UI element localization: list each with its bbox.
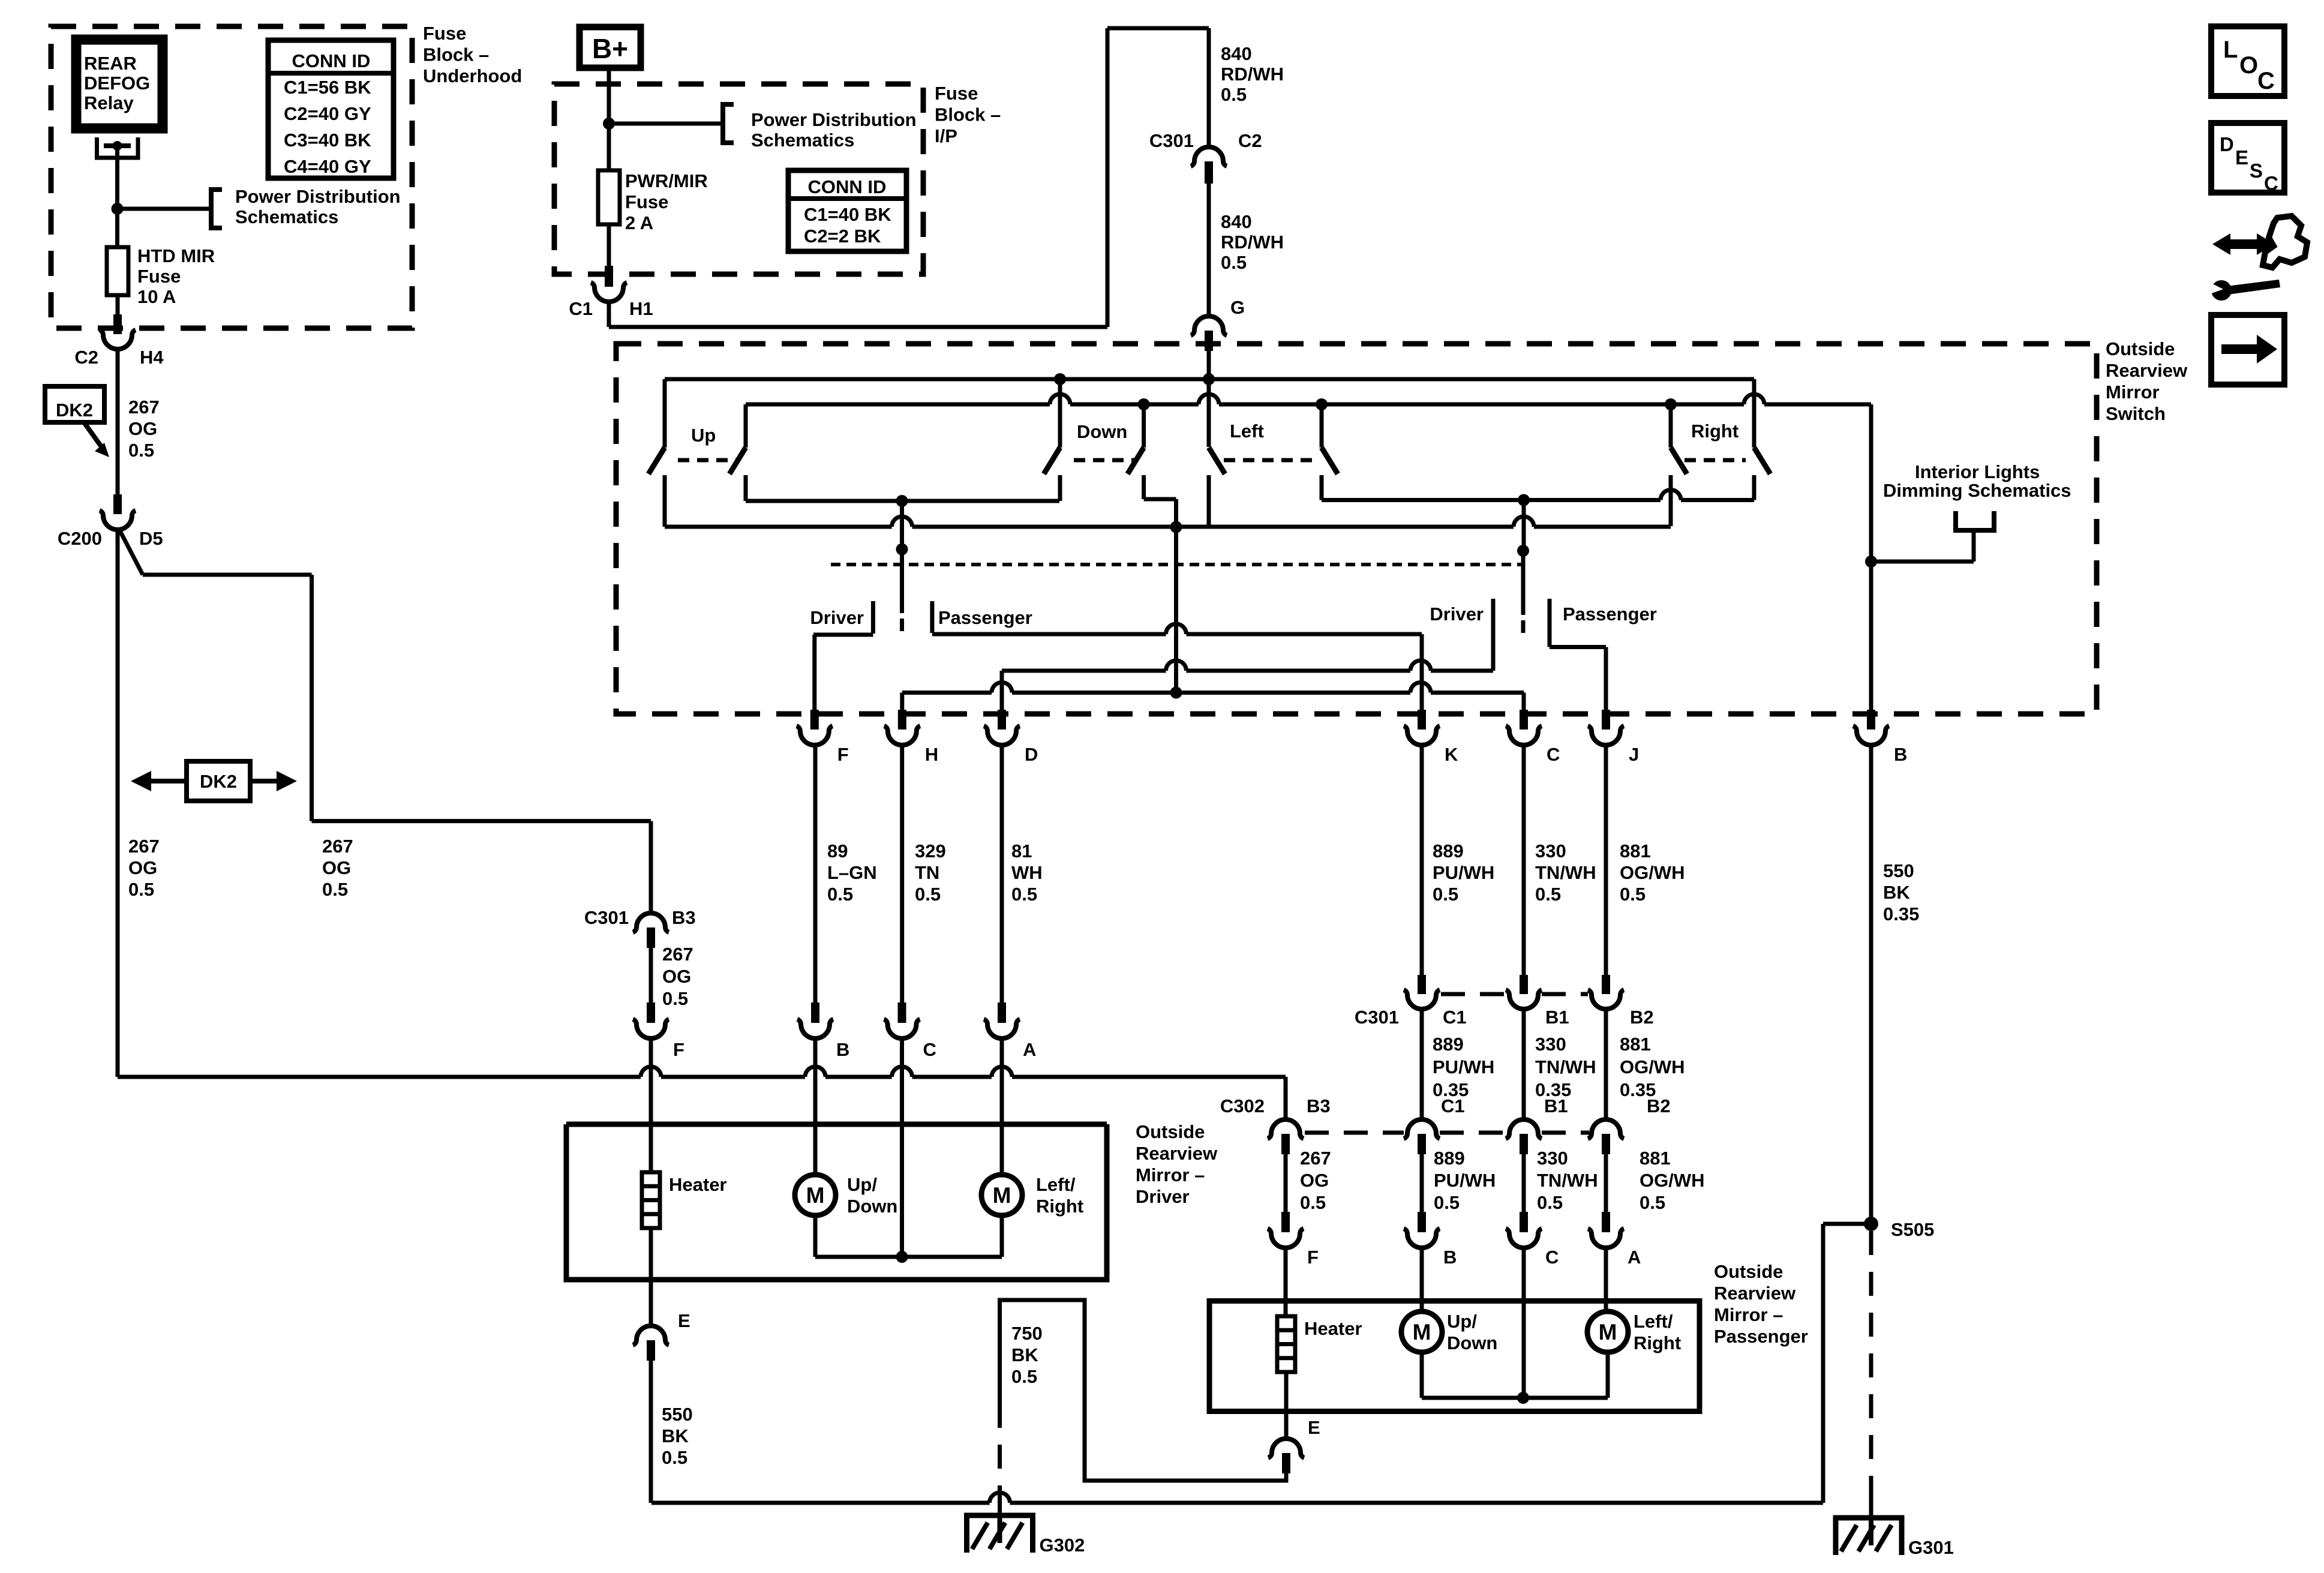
connector C301 C1 [1404, 990, 1440, 1009]
wire upper link Up-Down [746, 499, 1059, 503]
svg-text:267: 267 [662, 944, 693, 965]
svg-text:F: F [837, 744, 849, 765]
svg-text:0.5: 0.5 [915, 884, 941, 905]
CONN ID table underhood [268, 40, 394, 178]
svg-text:Outside: Outside [2106, 338, 2175, 359]
wire Up left to bus D [663, 475, 667, 527]
junction bus B Left right [1316, 398, 1328, 410]
svg-text:840: 840 [1221, 43, 1252, 64]
svg-text:Driver: Driver [810, 607, 864, 628]
svg-text:Passenger: Passenger [1563, 604, 1657, 625]
connector C301 B2 [1588, 990, 1624, 1009]
svg-text:881: 881 [1640, 1148, 1671, 1169]
svg-text:L: L [2223, 37, 2238, 63]
svg-text:Heater: Heater [1304, 1318, 1362, 1339]
wire 329 TN [900, 746, 904, 1002]
svg-text:Block –: Block – [423, 44, 489, 65]
junction splice [603, 118, 615, 130]
wire 840 feed vertical up [1106, 28, 1110, 327]
svg-text:DK2: DK2 [200, 771, 237, 792]
relay contact pin symbol [97, 137, 139, 158]
connector pin C200/D5 [113, 494, 122, 514]
svg-text:10 A: 10 A [137, 286, 176, 307]
wire Up right to link [744, 475, 748, 501]
svg-text:Down: Down [1077, 421, 1127, 442]
wire 267 OG to passenger via C302 [118, 1075, 641, 1079]
svg-text:Fuse: Fuse [423, 23, 466, 44]
wire bus A [665, 377, 1754, 382]
wire to bus D [1174, 499, 1178, 527]
junction bus B Right left [1665, 398, 1677, 410]
svg-text:C2: C2 [1238, 130, 1262, 151]
svg-text:I/P: I/P [935, 125, 957, 146]
wire D5 branch horizontal [143, 573, 312, 577]
svg-text:B: B [836, 1039, 849, 1060]
connector row dashes C301 [1441, 992, 1507, 996]
connector F switch [797, 726, 833, 745]
svg-text:0.5: 0.5 [1221, 84, 1247, 105]
wire 840 RD/WH lower [1207, 184, 1211, 314]
svg-text:550: 550 [662, 1404, 693, 1425]
connector row dashes C302 [1305, 1131, 1404, 1135]
svg-text:B: B [1443, 1247, 1457, 1268]
svg-text:K: K [1445, 744, 1458, 765]
junction bus B Down right [1138, 398, 1150, 410]
connector J switch [1588, 726, 1624, 745]
fuse HTD MIR 10A [107, 247, 128, 295]
svg-text:Passenger: Passenger [938, 607, 1032, 628]
wire passenger E loop [1000, 1300, 1287, 1481]
svg-text:Block –: Block – [935, 104, 1001, 125]
wire 889 to C302 [1420, 1010, 1424, 1119]
svg-text:C301: C301 [1149, 130, 1194, 151]
bracket selector Driver left [871, 601, 875, 634]
connector pin H switch [898, 710, 906, 730]
wire 750 BK dashed [998, 1404, 1002, 1488]
svg-text:A: A [1628, 1247, 1641, 1268]
svg-text:WH: WH [1011, 862, 1043, 883]
svg-text:M: M [806, 1183, 825, 1208]
splice S505 [1864, 1217, 1878, 1231]
svg-text:E: E [678, 1310, 690, 1331]
wire C to motor common [900, 1040, 904, 1257]
svg-text:E: E [2235, 146, 2248, 169]
wire up to S505 [1821, 1224, 1825, 1503]
wire H selector upper [900, 501, 904, 550]
svg-text:A: A [1023, 1039, 1036, 1060]
svg-text:0.5: 0.5 [662, 988, 688, 1009]
svg-text:DEFOG: DEFOG [84, 73, 150, 94]
svg-text:C2=40 GY: C2=40 GY [284, 103, 371, 124]
junction splice [112, 203, 124, 215]
svg-text:BK: BK [1883, 882, 1910, 903]
svg-text:C3=40 BK: C3=40 BK [284, 130, 371, 151]
wire H column exit [900, 693, 904, 715]
ground G302 [967, 1515, 1033, 1553]
connector pin C301 B1 [1520, 975, 1528, 994]
connector C1/H1 [591, 283, 627, 302]
connector pin A passenger mirror [1602, 1212, 1610, 1232]
svg-text:C301: C301 [584, 907, 629, 928]
wire J column [1604, 647, 1608, 715]
connector C switch [1506, 726, 1542, 745]
svg-text:Dimming Schematics: Dimming Schematics [1883, 480, 2071, 501]
component box outside rearview mirror driver [566, 1124, 1107, 1280]
connector A passenger mirror [1588, 1229, 1624, 1248]
svg-text:330: 330 [1537, 1148, 1568, 1169]
svg-text:D: D [2220, 133, 2234, 155]
svg-text:H4: H4 [140, 347, 164, 368]
svg-text:0.5: 0.5 [1433, 884, 1458, 905]
svg-text:F: F [1307, 1247, 1319, 1268]
motor M left/right driver [981, 1175, 1022, 1215]
wire Down left to link [1058, 475, 1062, 501]
svg-text:0.5: 0.5 [827, 884, 853, 905]
wire selector blade C dash [1521, 620, 1526, 633]
svg-text:H: H [925, 744, 938, 765]
switch Left blade dashes [1224, 458, 1314, 463]
connector F passenger mirror [1268, 1229, 1304, 1248]
wire B into passenger box [1420, 1249, 1424, 1311]
svg-text:Passenger: Passenger [1714, 1326, 1808, 1347]
wire motor to bus [1606, 1352, 1610, 1398]
svg-text:Driver: Driver [1136, 1186, 1190, 1207]
svg-text:Right: Right [1634, 1332, 1681, 1353]
motor M up/down passenger [1401, 1311, 1442, 1352]
svg-text:OG: OG [128, 857, 157, 878]
bracket selector Passenger right [1548, 599, 1552, 647]
svg-text:C302: C302 [1220, 1095, 1265, 1116]
connector C302 B2 [1588, 1119, 1624, 1139]
wire A into passenger box [1604, 1249, 1608, 1311]
wire heater to E [649, 1228, 653, 1326]
svg-text:C1: C1 [1441, 1095, 1465, 1116]
connector pin C301 C1 [1418, 975, 1426, 994]
wire Driver foot to F [813, 633, 873, 637]
svg-text:889: 889 [1434, 1148, 1465, 1169]
junction bus A Down switch [1054, 373, 1066, 385]
icon tool/adjust [2212, 233, 2275, 255]
connector H switch [884, 726, 920, 745]
svg-text:0.5: 0.5 [128, 879, 154, 900]
wire 889 PU/WH [1420, 746, 1424, 976]
ground G301 [1836, 1518, 1902, 1555]
svg-text:Switch: Switch [2106, 403, 2166, 424]
connector pin C switch [1520, 710, 1528, 730]
wire selector blade H dash [900, 619, 904, 631]
connector pin C driver mirror [898, 1002, 906, 1023]
svg-text:B2: B2 [1630, 1007, 1654, 1028]
wire fuse down [607, 224, 611, 267]
switch Up blade dashes [678, 458, 739, 463]
svg-text:Power Distribution: Power Distribution [235, 186, 401, 207]
wire to passenger mirror C [1522, 1154, 1526, 1212]
svg-text:C2=2 BK: C2=2 BK [804, 226, 881, 247]
wire 840 RD/WH down [1207, 28, 1211, 146]
wire common bus to line2 [1174, 527, 1178, 693]
svg-text:881: 881 [1620, 1034, 1651, 1055]
svg-text:G302: G302 [1040, 1535, 1085, 1556]
connector C301 C2 [1191, 147, 1227, 166]
connector pin A driver mirror [998, 1002, 1006, 1023]
wire to passenger mirror B [1420, 1154, 1424, 1212]
svg-text:RD/WH: RD/WH [1221, 232, 1284, 253]
svg-text:M: M [1599, 1320, 1617, 1344]
connector C302 C1 [1404, 1119, 1440, 1139]
switch Down left contact [1058, 379, 1062, 448]
svg-text:750: 750 [1011, 1323, 1043, 1344]
svg-text:B1: B1 [1544, 1095, 1568, 1116]
wire bus D common [665, 525, 892, 529]
connector C200/D5 [100, 511, 136, 530]
svg-text:Relay: Relay [84, 92, 134, 113]
wire A to left/right motor [1000, 1040, 1004, 1175]
wire to passenger mirror F [1284, 1154, 1288, 1212]
svg-text:BK: BK [1011, 1344, 1038, 1365]
svg-text:0.5: 0.5 [1535, 884, 1561, 905]
svg-text:BK: BK [662, 1425, 689, 1446]
svg-text:89: 89 [827, 840, 848, 861]
wire Passenger foot to J [1550, 645, 1606, 649]
connector A driver mirror [984, 1019, 1020, 1038]
junction motor bus C [1517, 1392, 1529, 1404]
svg-text:Rearview: Rearview [1714, 1283, 1796, 1304]
wire heater to E passenger [1284, 1372, 1289, 1439]
wire to C301 B3 [649, 821, 653, 913]
wire C selector upper [1522, 500, 1526, 551]
motor M up/down driver [795, 1175, 836, 1215]
svg-text:0.5: 0.5 [1537, 1192, 1563, 1213]
svg-text:550: 550 [1883, 860, 1914, 881]
svg-text:E: E [1308, 1417, 1320, 1438]
svg-text:Left/: Left/ [1634, 1311, 1673, 1332]
wire to power distribution bracket [609, 122, 723, 126]
svg-text:Rearview: Rearview [1136, 1143, 1218, 1164]
svg-text:Outside: Outside [1714, 1261, 1783, 1282]
svg-text:Mirror: Mirror [2106, 382, 2160, 403]
svg-text:0.5: 0.5 [322, 879, 348, 900]
wire G to Left switch contact [1207, 351, 1211, 447]
wire 840 feed horizontal [609, 325, 1107, 329]
connector pin B driver mirror [811, 1002, 819, 1023]
wire 89 L-GN [813, 746, 818, 1002]
svg-text:267: 267 [128, 836, 160, 857]
connector B passenger mirror [1404, 1229, 1440, 1248]
svg-text:PU/WH: PU/WH [1433, 862, 1494, 883]
wire Left left to bus D [1207, 475, 1211, 527]
svg-text:TN/WH: TN/WH [1537, 1170, 1598, 1191]
svg-text:Interior Lights: Interior Lights [1915, 461, 2040, 482]
svg-text:J: J [1629, 744, 1639, 765]
svg-text:CONN ID: CONN ID [292, 50, 371, 71]
svg-text:0.5: 0.5 [128, 440, 154, 461]
fuse block I/P dashed box [554, 84, 923, 274]
connector pin J switch [1602, 710, 1610, 730]
switch Right right contact [1752, 379, 1756, 448]
svg-text:C1=56 BK: C1=56 BK [284, 77, 371, 98]
switch Left left blade [1209, 448, 1225, 474]
wire motor to bus [1000, 1215, 1004, 1257]
svg-text:2 A: 2 A [625, 212, 653, 233]
svg-text:Driver: Driver [1430, 604, 1484, 625]
svg-text:889: 889 [1433, 1034, 1464, 1055]
svg-text:D5: D5 [139, 528, 163, 549]
connector pin K switch [1418, 710, 1426, 730]
svg-text:267: 267 [322, 836, 353, 857]
wire to S505 [1823, 1222, 1871, 1226]
svg-text:C1: C1 [1443, 1007, 1467, 1028]
wire common line H to C [902, 691, 992, 695]
connector D switch [984, 726, 1020, 745]
wire upper link Left-Right [1322, 498, 1661, 502]
junction interior lights takeoff [1865, 556, 1877, 568]
wire 550 BK [649, 1361, 653, 1503]
connector B switch [1853, 726, 1889, 745]
svg-text:Schematics: Schematics [751, 130, 854, 151]
svg-text:Heater: Heater [669, 1174, 727, 1195]
wire 330 TN/WH [1522, 746, 1526, 976]
svg-text:Power Distribution: Power Distribution [751, 109, 917, 130]
svg-text:G: G [1230, 297, 1245, 318]
svg-text:Down: Down [847, 1196, 897, 1217]
svg-text:Fuse: Fuse [137, 266, 181, 287]
wire Right right to link [1752, 475, 1756, 500]
switch Down right contact [1142, 404, 1146, 448]
svg-text:0.5: 0.5 [1640, 1192, 1665, 1213]
svg-text:CONN ID: CONN ID [808, 176, 887, 197]
svg-text:B3: B3 [672, 907, 696, 928]
svg-text:C: C [2257, 68, 2275, 94]
svg-text:Right: Right [1036, 1196, 1083, 1217]
svg-text:OG: OG [322, 857, 351, 878]
svg-text:Up/: Up/ [1447, 1311, 1477, 1332]
junction bus D common [1170, 521, 1182, 533]
svg-text:C: C [2264, 172, 2278, 194]
reference box DK2 double arrow [187, 761, 250, 801]
svg-text:0.5: 0.5 [1300, 1192, 1326, 1213]
motor M left/right passenger [1587, 1311, 1628, 1352]
connector pin B passenger mirror [1418, 1212, 1426, 1232]
svg-text:267: 267 [128, 397, 160, 418]
svg-text:L–GN: L–GN [827, 862, 877, 883]
svg-text:Mirror –: Mirror – [1136, 1164, 1205, 1185]
svg-text:Right: Right [1691, 421, 1739, 442]
heater driver mirror [642, 1172, 660, 1228]
svg-text:OG: OG [662, 966, 691, 987]
svg-text:PU/WH: PU/WH [1433, 1056, 1494, 1077]
connector C driver mirror [884, 1019, 920, 1038]
icon DESC box [2211, 123, 2284, 193]
svg-text:TN: TN [915, 862, 939, 883]
svg-text:Fuse: Fuse [625, 191, 668, 212]
svg-text:840: 840 [1221, 211, 1252, 232]
reference box DK2 [45, 386, 104, 422]
svg-text:881: 881 [1620, 840, 1651, 861]
svg-text:Fuse: Fuse [935, 83, 978, 104]
arrow DK2 to wire [84, 422, 102, 448]
wire B to up/down motor [813, 1040, 818, 1175]
bracket selector Driver right [1491, 599, 1496, 671]
svg-text:M: M [993, 1183, 1011, 1208]
wire S505 to G301 dashed [1869, 1231, 1873, 1488]
wire C into passenger box [1522, 1249, 1526, 1398]
connector C302 B3 [1268, 1119, 1304, 1139]
svg-text:0.35: 0.35 [1883, 903, 1919, 924]
icon arrow box [2211, 315, 2284, 385]
junction motor bus C [896, 1251, 908, 1263]
wire 267 OG left branch down [116, 531, 120, 1077]
svg-text:B+: B+ [592, 33, 628, 64]
wire Right left to bus D end [1669, 475, 1673, 526]
svg-text:C: C [923, 1039, 936, 1060]
wire D column [1000, 671, 1004, 714]
wire 267 OG from C2/H4 to C200 [116, 350, 120, 496]
wire Down right stub [1142, 475, 1146, 499]
junction C takeoff [1518, 494, 1530, 506]
wire selector blade H [900, 550, 904, 613]
fuse PWR/MIR 2A [598, 170, 620, 224]
svg-text:0.5: 0.5 [1011, 1366, 1037, 1387]
connector C passenger mirror [1506, 1229, 1542, 1248]
connector pin B switch [1867, 710, 1875, 730]
svg-text:C: C [1547, 744, 1560, 765]
wire D5 right branch diagonal [119, 530, 143, 575]
connector pin F switch [810, 710, 819, 730]
svg-text:Up/: Up/ [847, 1174, 877, 1195]
bracket interior lights dimming [1956, 511, 1994, 530]
svg-text:889: 889 [1433, 840, 1464, 861]
svg-text:C1=40 BK: C1=40 BK [804, 204, 891, 225]
svg-text:F: F [673, 1039, 684, 1060]
icon LOC box [2211, 26, 2284, 96]
connector C302 B1 [1506, 1119, 1542, 1139]
junction H takeoff [896, 495, 908, 507]
svg-text:RD/WH: RD/WH [1221, 64, 1284, 85]
connector K switch [1404, 726, 1440, 745]
wire 550 BK ground run [651, 1501, 990, 1505]
svg-text:REAR: REAR [84, 53, 137, 74]
svg-text:TN/WH: TN/WH [1535, 1056, 1596, 1077]
wire junction to power distribution bracket [118, 207, 209, 211]
svg-text:OG/WH: OG/WH [1640, 1170, 1705, 1191]
connector B driver mirror [797, 1019, 833, 1038]
relay K REAR DEFOG Relay box [76, 40, 163, 128]
wire relay to junction [115, 146, 119, 209]
svg-text:G301: G301 [1908, 1537, 1954, 1558]
wire motor common bus driver [815, 1255, 1002, 1259]
wire D5 branch to C301 B3 [312, 819, 651, 823]
connector C301 B3 [633, 913, 669, 932]
connector C301 B1 [1506, 990, 1542, 1009]
wire motor common bus passenger [1422, 1396, 1608, 1400]
connector pin F driver mirror [647, 1002, 655, 1023]
switch Up left contact [663, 379, 667, 448]
CONN ID table I/P [788, 170, 906, 251]
wire C1/H1 down [607, 303, 611, 327]
wire Passenger foot to K [932, 632, 1166, 637]
outside rearview mirror switch dashed box [616, 344, 2097, 714]
wire bus B [746, 403, 1050, 407]
heater passenger mirror [1277, 1316, 1295, 1372]
svg-text:Up: Up [691, 425, 716, 446]
svg-text:0.5: 0.5 [1620, 884, 1646, 905]
bracket selector Passenger left [930, 601, 934, 633]
wire 750 BK to ground [998, 1488, 1002, 1515]
svg-text:M: M [1413, 1320, 1431, 1344]
svg-text:267: 267 [1300, 1148, 1331, 1169]
wire 881 to C302 [1604, 1010, 1608, 1119]
wire 881 OG/WH [1604, 746, 1608, 976]
